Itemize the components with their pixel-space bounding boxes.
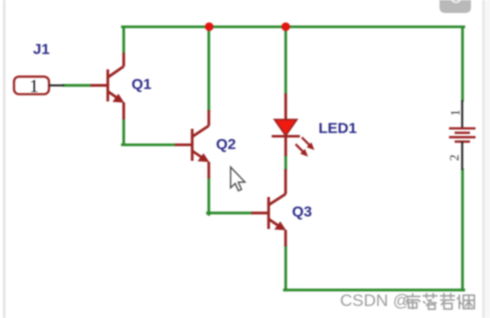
toolbar button (partial, top right) bbox=[440, 0, 472, 13]
svg-text:Q3: Q3 bbox=[292, 204, 312, 221]
right panel separator bbox=[482, 0, 484, 318]
svg-text:J1: J1 bbox=[33, 41, 50, 58]
wire J1 to Q1 base bbox=[64, 84, 91, 87]
wire top bus to LED1 anode bbox=[284, 27, 287, 94]
transistor Q1 bbox=[91, 53, 124, 120]
wire LED1 cathode to Q3 collector bbox=[284, 156, 287, 169]
battery (pins 1,2) bbox=[449, 100, 476, 170]
mouse cursor bbox=[231, 167, 245, 191]
svg-text:1: 1 bbox=[30, 76, 39, 96]
LED emission arrow 1 bbox=[302, 137, 315, 150]
svg-text:Q2: Q2 bbox=[216, 136, 236, 153]
connector J1 bbox=[14, 77, 64, 95]
wire to Q2 base bbox=[122, 143, 175, 146]
wire Q1 collector to top bus bbox=[122, 28, 125, 53]
junction node at top bus / LED1 anode bbox=[281, 22, 290, 31]
svg-text:2: 2 bbox=[447, 155, 462, 162]
transistor Q3 bbox=[251, 169, 285, 246]
svg-text:LED1: LED1 bbox=[319, 120, 357, 137]
wire to Q3 base bbox=[208, 212, 252, 215]
watermark CJK glyphs bbox=[406, 293, 475, 309]
left panel separator bbox=[3, 0, 5, 318]
svg-text:Q1: Q1 bbox=[132, 76, 152, 93]
junction node at top bus / Q2 collector bbox=[205, 22, 214, 31]
LED LED1 bbox=[272, 94, 300, 157]
wire bottom return bbox=[284, 289, 463, 292]
wire Q1 emitter down bbox=[122, 119, 125, 143]
wire top bus to battery pin 1 bbox=[461, 28, 464, 100]
wire top bus horizontal bbox=[122, 25, 463, 28]
svg-text:CSDN @: CSDN @ bbox=[340, 291, 410, 310]
LED emission arrow 2 bbox=[296, 144, 308, 156]
wire Q3 emitter down bbox=[284, 246, 287, 290]
wire Q2 emitter down bbox=[207, 178, 210, 214]
transistor Q2 bbox=[175, 110, 209, 178]
wire Q2 collector to top bus bbox=[207, 27, 210, 110]
svg-text:1: 1 bbox=[448, 110, 463, 117]
wire battery pin 2 to bottom return bbox=[461, 170, 464, 290]
